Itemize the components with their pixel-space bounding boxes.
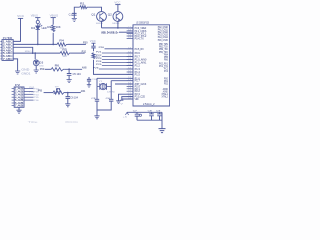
svg-text:PA2_CN12: PA2_CN12 [158, 31, 169, 34]
svg-text:AB: AB [17, 88, 24, 91]
svg-text:2.54mm_2: 2.54mm_2 [143, 104, 155, 106]
wire R4 to net label PA9 [68, 43, 86, 45]
svg-text:AIN0: AIN0 [82, 66, 87, 69]
svg-text:P30: P30 [83, 42, 88, 45]
ground for connector P1 [15, 71, 20, 74]
wire P1 pin3 bend down [13, 47, 33, 53]
svg-text:PA0_CN10: PA0_CN10 [158, 26, 169, 29]
loading capacitor C3 [96, 87, 98, 100]
svg-text:P1.2: P1.2 [135, 66, 141, 68]
svg-text:AB: AB [17, 105, 24, 108]
capacitor C5 [68, 69, 70, 73]
ground for C5 [68, 75, 70, 79]
wire R6 junction to net label [64, 68, 82, 70]
capacitor C6 [67, 93, 69, 97]
transistor Q1 (circle) [97, 12, 107, 22]
svg-text:P1.7: P1.7 [135, 81, 141, 83]
svg-text:12: 12 [128, 55, 131, 57]
wire R2 to bus [52, 33, 54, 45]
wires U1 bottom-left power pins to ground [119, 94, 134, 101]
svg-text:C8051F320.SchDoc: C8051F320.SchDoc [65, 122, 79, 124]
wire R1 to Q1 [88, 7, 101, 11]
ferrite bead / circle on D2 chain [37, 18, 39, 21]
svg-text:12: 12 [128, 64, 131, 66]
svg-text:P1.5: P1.5 [135, 74, 141, 76]
svg-text:10K: 10K [62, 56, 67, 58]
svg-text:12: 12 [128, 73, 131, 75]
svg-text:ABC: ABC [6, 46, 13, 49]
svg-text:AVDD: AVDD [163, 88, 168, 91]
wire crystal caps join rail [97, 101, 111, 110]
svg-text:ABC: ABC [6, 49, 13, 52]
wire P1 pin5 to resistor R5 net [13, 52, 60, 54]
svg-text:PA4_CN14: PA4_CN14 [158, 36, 169, 39]
svg-text:U2 C8051F320: U2 C8051F320 [136, 21, 149, 24]
wire Q2 down to bus [117, 21, 119, 28]
wire bundle U1 port pins with net labels [105, 48, 134, 50]
svg-text:12: 12 [128, 79, 131, 81]
svg-text:Title: Title [28, 121, 40, 124]
LED D2 [37, 24, 39, 26]
svg-text:GND1: GND1 [21, 74, 31, 76]
transistor Q2 (circle) [113, 12, 123, 22]
crystal row wire OSC1 [97, 77, 133, 79]
svg-text:LED: LED [42, 27, 47, 30]
svg-text:P1 HDR: P1 HDR [3, 37, 13, 40]
wire Q1 emitter down to bus [101, 21, 103, 28]
crystal Y1 (circle) with plates [96, 78, 98, 86]
wire R7 to net label AIN1 [65, 92, 81, 94]
svg-text:LED: LED [39, 65, 44, 67]
svg-text:PA5_CN15: PA5_CN15 [158, 39, 169, 42]
wire U1 pin row 2 (USB net) [119, 31, 133, 33]
crystal row wire OSC2 [111, 80, 133, 82]
svg-text:XTAL2: XTAL2 [162, 96, 169, 99]
wire P1 pin2 to resistor R4 net [13, 43, 57, 45]
svg-text:GND: GND [21, 70, 30, 72]
svg-text:PB6: PB6 [164, 60, 168, 62]
svg-text:P1.0_AIN0: P1.0_AIN0 [135, 59, 147, 62]
wire VCC to Q2 [117, 5, 119, 12]
resistor R4 [57, 43, 67, 46]
capacitor C10 with ground (mid-left of crystal) [88, 77, 90, 79]
svg-text:USB_D-/USB_D+: USB_D-/USB_D+ [101, 30, 119, 34]
svg-text:XTAL1: XTAL1 [162, 93, 169, 96]
svg-text:P00: P00 [40, 69, 45, 71]
resistor R3 on reset chain [93, 48, 95, 51]
wire bus to U1 pin row 1 [102, 27, 134, 29]
ground for crystal caps [96, 110, 98, 116]
svg-text:S8050: S8050 [112, 23, 120, 25]
svg-text:12: 12 [128, 98, 131, 100]
svg-text:C5 104: C5 104 [73, 74, 82, 76]
svg-text:12: 12 [128, 37, 131, 39]
ground for decoupling rail [158, 129, 165, 133]
wires P2 to net labels [24, 88, 33, 90]
svg-text:P1.3: P1.3 [135, 69, 141, 71]
capacitor C8 [151, 112, 153, 114]
ground for C1 [72, 18, 77, 21]
svg-text:12: 12 [128, 52, 131, 54]
svg-text:P1.1_AIN1: P1.1_AIN1 [135, 62, 147, 65]
svg-text:AIN1: AIN1 [81, 90, 86, 93]
svg-text:ABC: ABC [6, 41, 13, 44]
svg-text:VCC: VCC [114, 1, 120, 4]
svg-text:PA3_CN13: PA3_CN13 [158, 34, 169, 37]
svg-text:ABC: ABC [6, 44, 13, 47]
resistor R6 [51, 68, 64, 71]
capacitor C2 on reset chain [93, 43, 95, 46]
LED D3 with circle [34, 53, 36, 59]
decoupling rail VCC [127, 111, 162, 113]
svg-text:VBUS: VBUS [50, 13, 59, 17]
power tick for U1 VDD [120, 99, 123, 101]
svg-text:AB: AB [17, 99, 24, 102]
svg-text:C6 104: C6 104 [70, 97, 78, 99]
wire to resistor R6 [45, 68, 52, 70]
svg-text:ABC: ABC [6, 52, 13, 55]
polarized capacitor C7 [136, 112, 138, 114]
wire to resistor R7 [44, 92, 53, 94]
wire P1 pin6 to ground [13, 59, 17, 71]
wire U1 row y84 short [115, 83, 133, 85]
decoupling ground rail [137, 119, 162, 121]
svg-text:AB: AB [17, 96, 24, 99]
capacitor C9 [159, 112, 161, 114]
svg-text:12: 12 [128, 61, 131, 63]
resistor R2 (vertical) [52, 18, 54, 25]
U1 left pin stubs and pin numbers [127, 28, 133, 99]
ground for U1 VSS [116, 101, 121, 104]
resistor R5 [60, 51, 70, 54]
svg-text:AGND: AGND [163, 90, 168, 93]
svg-text:AB: AB [17, 93, 24, 96]
ground for C6 [67, 98, 69, 103]
svg-text:VCC: VCC [90, 41, 96, 43]
svg-text:VDD: VDD [135, 99, 139, 101]
svg-text:P31: P31 [82, 50, 87, 53]
svg-text:P0.5_RX: P0.5_RX [135, 49, 145, 51]
svg-text:P0.4_TX: P0.4_TX [135, 39, 145, 41]
svg-text:VCC: VCC [17, 14, 24, 18]
svg-text:PD2: PD2 [164, 84, 168, 86]
ground for LED D3 [35, 66, 37, 70]
svg-text:12: 12 [128, 68, 131, 70]
svg-text:P0.7: P0.7 [135, 57, 141, 59]
connector P1 (6-pin header) [2, 40, 13, 61]
resistor R1 top-left of oscillator [74, 7, 79, 18]
svg-text:10K: 10K [56, 26, 61, 29]
svg-text:AB: AB [17, 102, 24, 105]
svg-text:ABC: ABC [6, 55, 13, 58]
wire VCC to connector P1 pin1 [13, 18, 20, 41]
svg-text:ABC: ABC [6, 58, 13, 61]
svg-text:S8050: S8050 [96, 23, 104, 25]
svg-text:AB: AB [17, 91, 24, 94]
wire reset chain to U1 /RST pin [94, 60, 134, 75]
test point TP1 circle [57, 89, 60, 92]
svg-text:12: 12 [128, 90, 131, 92]
svg-text:MISO: MISO [25, 51, 32, 53]
svg-text:VBUS: VBUS [31, 13, 38, 17]
connector P2 (7-pin header) [14, 87, 24, 107]
wire LED D2 to bus [37, 30, 39, 45]
svg-text:PA1_CN11: PA1_CN11 [158, 28, 169, 31]
svg-text:PC3: PC3 [164, 71, 168, 73]
loading capacitor C4 [110, 87, 112, 100]
svg-text:12: 12 [128, 47, 131, 49]
IC U1 body [133, 25, 170, 106]
wire rail to ground [161, 112, 163, 128]
capacitor C1 [72, 13, 77, 15]
svg-text:P2.2: P2.2 [135, 91, 141, 93]
wire R5 to net label P31 [71, 52, 85, 54]
ground for connector P2 [18, 107, 20, 110]
svg-text:12: 12 [128, 58, 131, 60]
svg-text:P0.6: P0.6 [135, 53, 141, 55]
resistor R7 [53, 91, 65, 94]
